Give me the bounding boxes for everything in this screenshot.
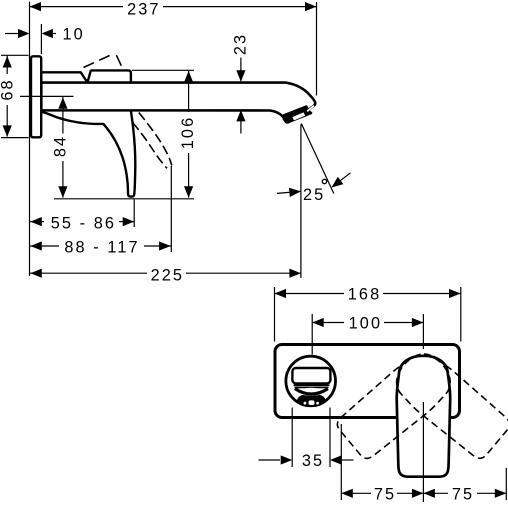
dim 68 — [1, 54, 29, 56]
wall plate (side view) — [31, 56, 41, 137]
svg-text:106: 106 — [179, 116, 197, 149]
svg-text:25: 25 — [303, 186, 325, 204]
aerator arc — [295, 389, 328, 394]
svg-text:237: 237 — [127, 0, 160, 18]
dim 55-86 — [133, 200, 135, 228]
dim 106 — [188, 71, 190, 112]
node top reference line — [132, 69, 194, 71]
angle 25 deg — [301, 124, 334, 194]
dim 237 — [316, 2, 318, 96]
svg-text:88 - 117: 88 - 117 — [64, 238, 139, 256]
svg-text:75: 75 — [374, 485, 396, 502]
spout escutcheon circle — [286, 356, 336, 406]
aerator housing — [284, 107, 310, 122]
handle (front view, solid) — [397, 356, 451, 477]
dim 75 right — [505, 468, 507, 500]
svg-text:84: 84 — [51, 135, 69, 157]
dim 225 — [300, 125, 302, 279]
spout body (side view) — [41, 83, 315, 123]
svg-text:68: 68 — [0, 78, 17, 100]
wire wall face line — [29, 2, 31, 277]
dashed grip swivel position — [139, 113, 172, 166]
svg-text:55 - 86: 55 - 86 — [51, 215, 116, 233]
node centerline reference — [20, 95, 74, 97]
dashed lever raised position — [84, 53, 115, 67]
dim 10 — [40, 24, 42, 54]
handle lever and grip (side view) — [41, 70, 135, 196]
spout lip lines — [294, 384, 330, 386]
dim 100 — [311, 314, 313, 355]
spout front window — [292, 368, 330, 383]
svg-text:168: 168 — [348, 286, 381, 304]
dim 23 — [240, 58, 242, 82]
dim 168 — [274, 287, 276, 342]
svg-text:100: 100 — [349, 315, 382, 333]
node bottom reference line — [54, 198, 194, 200]
dim 35 — [291, 408, 293, 468]
svg-text:225: 225 — [151, 266, 184, 284]
dim 84 — [62, 96, 64, 133]
dashed handle swung left — [333, 344, 460, 463]
wire notch at spout end face — [307, 106, 314, 112]
wall plate (escutcheon) — [275, 345, 460, 418]
svg-text:35: 35 — [302, 452, 324, 470]
svg-text:23: 23 — [232, 33, 250, 55]
aerator window — [292, 112, 305, 120]
dim 88-117 — [170, 166, 172, 252]
dashed handle swung right — [387, 344, 508, 463]
aerator cap — [297, 393, 325, 407]
svg-text:10: 10 — [62, 26, 84, 44]
svg-text:75: 75 — [452, 485, 474, 502]
dim 75 left — [340, 424, 342, 500]
